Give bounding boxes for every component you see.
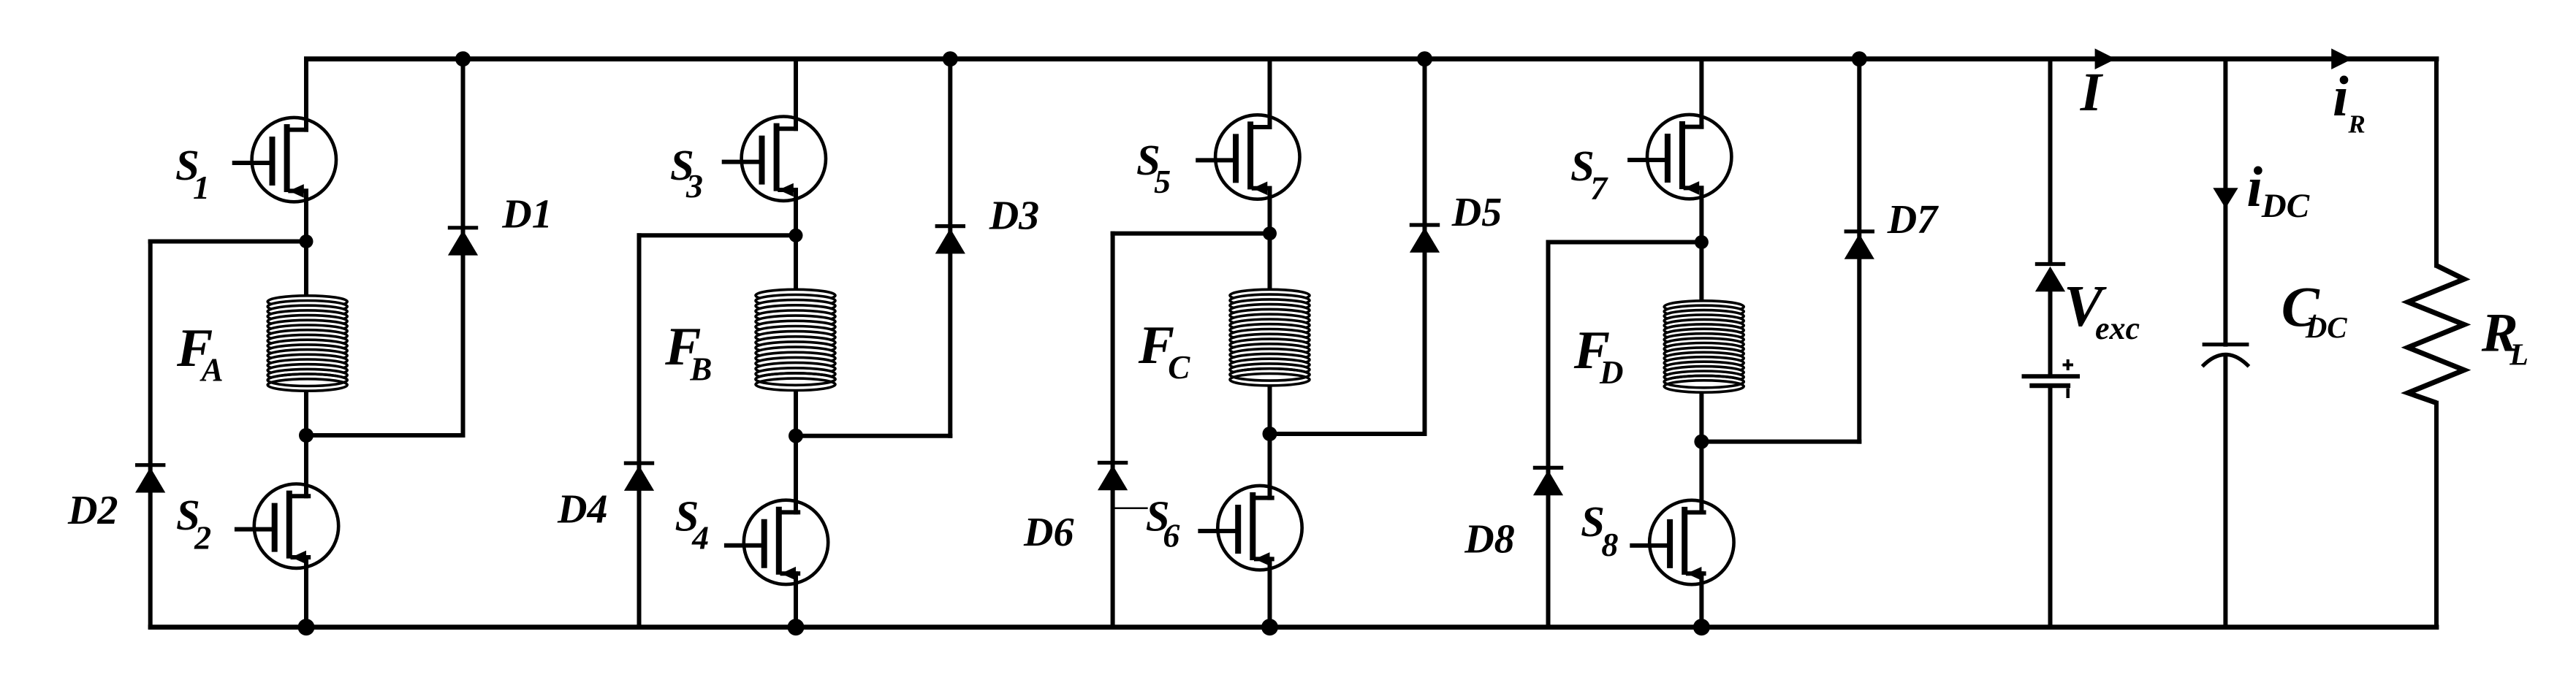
svg-text:2: 2 (194, 519, 211, 557)
wire phase D: top rail to D upper switch drain (1699, 59, 1703, 127)
svg-text:D: D (1599, 354, 1624, 391)
svg-text:4: 4 (691, 519, 709, 557)
wire load resistor to bottom rail (2434, 403, 2439, 627)
current arrow I (rightward on top rail) (2095, 48, 2116, 69)
wire phase A: upper switch source to winding-top node (304, 191, 308, 241)
wire phase C: top rail to C upper switch drain (1268, 59, 1272, 127)
wire phase C: node to winding top (1268, 234, 1272, 291)
wire phase B: winding bottom to node (794, 389, 798, 435)
svg-text:A: A (200, 352, 224, 389)
wire phase D: right diode branch vertical (1857, 59, 1861, 442)
node phase C leg / bottom rail (junction dot) (1261, 619, 1278, 635)
svg-text:D7: D7 (1887, 197, 1939, 242)
current arrow i_DC (downward) (2213, 188, 2238, 208)
diode D2 (135, 465, 165, 493)
phase winding F_C (inductor coil) (1230, 289, 1310, 386)
node D1 branch / top rail (junction dot) (455, 51, 471, 66)
wire phase A: winding bottom to node (304, 389, 308, 435)
phase winding F_D (inductor coil) (1664, 301, 1744, 392)
diode D8 (1533, 467, 1563, 495)
svg-text:I: I (2080, 62, 2104, 123)
battery plus sign (2063, 359, 2074, 370)
svg-text:i: i (2333, 64, 2349, 128)
svg-text:D3: D3 (989, 193, 1039, 238)
svg-text:7: 7 (1590, 169, 1608, 207)
svg-text:D1: D1 (501, 192, 552, 237)
svg-text:1: 1 (193, 169, 210, 206)
transistor S2 (lower switch, phase A) (237, 484, 338, 568)
phase winding F_B (inductor coil) (756, 289, 835, 390)
svg-text:DC: DC (2261, 187, 2310, 225)
transistor S5 (upper switch, phase C) (1198, 115, 1299, 199)
svg-text:5: 5 (1154, 163, 1171, 200)
wire phase C: right diode branch vertical (1423, 59, 1427, 434)
node D5 branch / top rail (junction dot) (1417, 51, 1432, 66)
wire phase D: winding-bottom node to right diode branch (1701, 440, 1859, 444)
wire C_DC branch: top rail down to capacitor top plate (2223, 59, 2227, 345)
wire leader tick from D6 branch toward S6 label (1113, 508, 1147, 510)
node phase A winding-bottom (junction dot) (299, 428, 314, 443)
svg-text:D8: D8 (1464, 516, 1514, 562)
transistor S3 (upper switch, phase B) (724, 117, 826, 201)
transistor S6 (lower switch, phase C) (1200, 486, 1302, 570)
wire phase A: winding-top node to left diode branch (151, 240, 306, 244)
wire phase C: left diode branch vertical (1111, 234, 1115, 627)
wire phase B: top rail to B upper switch drain (794, 59, 798, 129)
wire phase B: node to winding top (794, 235, 798, 291)
svg-text:D4: D4 (557, 486, 607, 532)
wire phase B: node to lower switch drain (794, 436, 798, 513)
wire excitation diode to battery positive plate (2048, 291, 2053, 374)
transistor S1 (upper switch, phase A) (235, 118, 336, 202)
wire phase A: node to lower switch drain (304, 435, 308, 496)
transistor S8 (lower switch, phase D) (1632, 500, 1733, 584)
wire phase A: lower switch source to bottom rail (304, 557, 308, 627)
wire phase C: winding bottom to node (1268, 384, 1272, 434)
wire phase D: lower switch source to bottom rail (1699, 573, 1703, 627)
wire phase A: right diode branch vertical (461, 59, 466, 435)
wire phase B: lower switch source to bottom rail (794, 573, 798, 627)
svg-text:D5: D5 (1451, 190, 1502, 235)
wire phase B: upper switch source to winding-top node (794, 190, 798, 235)
svg-text:8: 8 (1601, 526, 1618, 563)
wire battery to bottom rail (2048, 388, 2053, 627)
wire phase B: winding-bottom node to right diode branch (796, 434, 950, 438)
wire phase C: upper switch source to winding-top node (1268, 188, 1272, 234)
node phase D winding-top (junction dot) (1695, 235, 1709, 249)
node D3 branch / top rail (junction dot) (943, 51, 958, 66)
battery minus tick (2066, 389, 2070, 399)
svg-text:DC: DC (2305, 310, 2348, 344)
wire phase D: upper switch source to winding-top node (1699, 188, 1703, 242)
wire phase D: winding-top node to left diode branch (1549, 240, 1702, 245)
wire top DC rail (304, 56, 2439, 61)
svg-text:R: R (2347, 110, 2365, 138)
diode D1 (448, 228, 478, 256)
svg-text:D6: D6 (1023, 510, 1074, 555)
wire phase C: winding-bottom node to right diode branch (1270, 432, 1425, 436)
node phase B leg / bottom rail (junction dot) (788, 619, 805, 635)
phase winding F_A (inductor coil) (267, 296, 347, 391)
wire V_exc branch: top rail down to excitation diode (2048, 59, 2053, 263)
wire phase D: left diode branch vertical (1546, 242, 1551, 627)
diode excitation-series diode (unlabelled) (2035, 264, 2065, 292)
wire phase A: top rail to A upper switch drain (304, 59, 308, 130)
node D7 branch / top rail (junction dot) (1852, 51, 1867, 66)
wire phase D: winding bottom to node (1699, 391, 1703, 442)
node phase B winding-top (junction dot) (789, 229, 803, 242)
wire phase A: left diode branch vertical (148, 242, 153, 627)
wire phase D: node to lower switch drain (1699, 442, 1703, 513)
wire bottom DC rail (148, 624, 2439, 630)
wire phase B: right diode branch vertical (948, 59, 952, 436)
node phase D winding-bottom (junction dot) (1694, 435, 1709, 449)
resistor R_L (load) (2408, 266, 2464, 403)
wire phase B: left diode branch vertical (637, 235, 642, 627)
node phase A leg / bottom rail (junction dot) (298, 619, 315, 635)
svg-text:B: B (689, 351, 712, 388)
diode D4 (624, 463, 654, 491)
svg-text:D2: D2 (67, 488, 118, 533)
node phase B winding-bottom (junction dot) (789, 429, 803, 443)
svg-text:3: 3 (685, 167, 703, 205)
svg-text:i: i (2246, 155, 2262, 218)
battery V_exc (excitation source) (2022, 376, 2081, 386)
svg-text:exc: exc (2095, 310, 2140, 346)
wire phase B: winding-top node to left diode branch (639, 233, 797, 237)
wire capacitor bottom plate to bottom rail (2223, 356, 2227, 627)
diode D7 (1844, 232, 1874, 259)
node phase A winding-top (junction dot) (300, 234, 314, 248)
node phase D leg / bottom rail (junction dot) (1693, 619, 1710, 635)
transistor S7 (upper switch, phase D) (1630, 115, 1731, 199)
diode D3 (935, 226, 965, 254)
node phase C winding-top (junction dot) (1263, 226, 1277, 240)
wire phase C: lower switch source to bottom rail (1268, 559, 1272, 627)
svg-text:L: L (2509, 339, 2528, 373)
wire phase A: winding-bottom node to right diode branch (306, 433, 463, 438)
svg-text:C: C (1168, 349, 1190, 386)
diode D6 (1098, 463, 1128, 491)
svg-text:6: 6 (1163, 516, 1179, 554)
wire phase C: winding-top node to left diode branch (1113, 232, 1270, 236)
wire phase A: node to winding top (304, 242, 308, 298)
wire top rail to load resistor (2434, 59, 2439, 266)
transistor S4 (lower switch, phase B) (726, 500, 828, 584)
current arrow i_R (rightward on top rail) (2331, 48, 2352, 69)
node phase C winding-bottom (junction dot) (1263, 427, 1277, 441)
capacitor C_DC (2203, 345, 2249, 367)
diode D5 (1410, 225, 1440, 253)
wire phase D: node to winding top (1699, 242, 1703, 303)
wire phase C: node to lower switch drain (1268, 434, 1272, 498)
